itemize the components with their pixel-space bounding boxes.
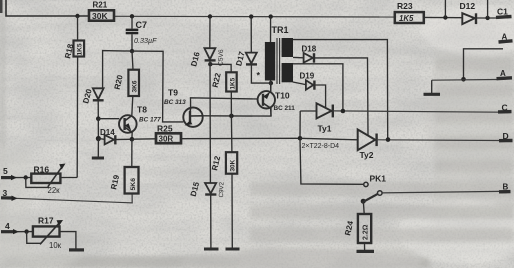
- svg-text:PK1: PK1: [370, 174, 387, 184]
- diode D20: [81, 87, 103, 118]
- main mid rail (D14 - R25 - Ty2): [98, 138, 104, 141]
- ground stub left: [97, 139, 99, 158]
- resistor R21: [89, 1, 114, 22]
- svg-text:1K5: 1K5: [77, 43, 84, 55]
- wire T9 base / T10 emitter: [203, 108, 271, 116]
- svg-text:R25: R25: [157, 124, 173, 134]
- wire R23 to D12: [424, 16, 463, 18]
- node A junction: [461, 77, 466, 82]
- wire secondary2 bottom to D19: [293, 82, 306, 85]
- svg-text:C7: C7: [136, 20, 148, 30]
- svg-text:*: *: [257, 71, 261, 81]
- wire C7 node to T9 emitter: [132, 51, 183, 122]
- resistor R19: [109, 139, 138, 193]
- resistor R12: [210, 116, 239, 249]
- svg-text:T8: T8: [137, 105, 147, 115]
- svg-text:D14: D14: [100, 128, 115, 137]
- capacitor C7: [126, 16, 157, 51]
- svg-text:30K: 30K: [92, 11, 108, 21]
- diode D14: [100, 128, 132, 144]
- wire T8 base: [98, 118, 119, 120]
- node D16 cathode: [208, 62, 212, 66]
- terminal A2: [497, 76, 513, 80]
- pin 4: [1, 221, 33, 234]
- node / stub up 1: [443, 15, 447, 19]
- node D line: [386, 137, 391, 142]
- transformer TR1: [257, 17, 294, 92]
- ground A: [431, 80, 433, 94]
- resistor R22: [211, 72, 237, 116]
- resistor R23: [395, 1, 424, 23]
- node D17 top: [249, 14, 253, 18]
- transistor T9: [164, 88, 203, 127]
- wire C7-node to D20: [103, 51, 132, 89]
- node R19/T8: [130, 137, 135, 142]
- diode D19: [300, 72, 326, 109]
- svg-text:A: A: [502, 33, 508, 42]
- node / stub up 2: [485, 16, 489, 20]
- resistor R18: [63, 16, 84, 178]
- svg-text:C1: C1: [497, 7, 508, 17]
- svg-text:Ty2: Ty2: [360, 150, 374, 160]
- terminal C1: [496, 15, 512, 19]
- svg-text:C9V2: C9V2: [218, 181, 226, 197]
- svg-text:R21: R21: [93, 1, 108, 10]
- thyristor Ty2: [358, 130, 377, 161]
- svg-text:1K5: 1K5: [230, 77, 237, 89]
- svg-text:BC 177: BC 177: [139, 117, 161, 124]
- node R22 tap: [229, 114, 234, 119]
- node R18 top: [75, 14, 79, 18]
- scan edge artifact: [0, 0, 3, 13]
- svg-text:1K5: 1K5: [399, 14, 414, 23]
- svg-text:B: B: [503, 183, 509, 192]
- svg-text:3: 3: [3, 188, 8, 198]
- svg-text:30K: 30K: [230, 159, 237, 171]
- node Ty2 anode / PK1: [298, 136, 303, 141]
- svg-text:5: 5: [3, 166, 8, 176]
- wire top rail: [114, 15, 395, 18]
- pin 5: [1, 166, 31, 180]
- svg-text:R16: R16: [34, 165, 50, 175]
- wire to Ty2: [300, 138, 358, 140]
- wire top-left entry: [6, 0, 89, 16]
- wire secondary2 top tap: [293, 64, 343, 111]
- resistor R24: [343, 202, 374, 251]
- terminal B: [499, 190, 511, 194]
- zener D16: [189, 17, 225, 184]
- terminal D: [499, 139, 513, 143]
- svg-text:T10: T10: [275, 91, 290, 101]
- svg-text:30R: 30R: [159, 135, 174, 144]
- svg-text:TR1: TR1: [272, 25, 289, 35]
- diode D18: [302, 45, 369, 137]
- node D14 anode / ground: [96, 136, 101, 141]
- svg-text:D12: D12: [460, 1, 476, 11]
- ground: [92, 157, 104, 160]
- svg-text:2.2Ω: 2.2Ω: [362, 224, 369, 240]
- potentiometer R16: [26, 164, 77, 195]
- svg-text:0.33µF: 0.33µF: [134, 36, 157, 45]
- wire to R25: [132, 138, 156, 140]
- switch PK1: [361, 174, 387, 204]
- diode D17: [234, 17, 271, 84]
- terminal C: [498, 110, 512, 114]
- svg-text:22к: 22к: [48, 186, 61, 195]
- svg-text:BC 313: BC 313: [164, 99, 186, 106]
- svg-text:C: C: [502, 103, 508, 113]
- svg-text:R23: R23: [397, 1, 413, 11]
- svg-text:10к: 10к: [49, 241, 62, 250]
- transistor T8: [119, 105, 161, 133]
- wire T9 collector to T10 base: [191, 98, 258, 108]
- wire D16 cathode to R22: [210, 64, 231, 72]
- node D17/T10 collector: [269, 81, 273, 85]
- svg-text:D19: D19: [300, 72, 315, 81]
- wire T10 collector: [270, 83, 272, 91]
- zener D15: [189, 180, 226, 249]
- wire secondary1 bottom to D18: [293, 56, 304, 58]
- wire R25 to Ty2 node: [181, 137, 300, 139]
- svg-text:T9: T9: [168, 88, 178, 98]
- svg-text:4: 4: [5, 221, 10, 231]
- wire Ty2 cathode / D line: [377, 139, 500, 142]
- resistor R20: [113, 51, 139, 96]
- svg-text:5K6: 5K6: [130, 178, 137, 191]
- node secondary2 tap on C line: [341, 109, 346, 114]
- node D16 top: [208, 14, 212, 18]
- transistor T10: [258, 91, 296, 113]
- svg-text:C5V6: C5V6: [218, 49, 226, 66]
- wire T8 emitter down: [131, 132, 133, 140]
- thyristor Ty1: [300, 103, 333, 133]
- svg-text:Ty1: Ty1: [318, 124, 332, 134]
- svg-text:D: D: [503, 131, 509, 141]
- wire A1: [464, 49, 504, 80]
- wire PK1 branch: [300, 138, 364, 184]
- node TR1 top: [269, 14, 273, 18]
- wire secondary1 top tap: [293, 40, 388, 140]
- diode D12: [460, 1, 477, 24]
- svg-text:2×T22-8-D4: 2×T22-8-D4: [302, 143, 340, 150]
- node T8 base: [96, 116, 101, 121]
- pin 3: [1, 188, 132, 203]
- potentiometer R17: [27, 216, 84, 250]
- resistor R25: [156, 124, 181, 144]
- svg-text:3K6: 3K6: [132, 80, 139, 92]
- wire D12 to C1: [476, 17, 497, 19]
- node C7 bottom junction: [130, 49, 134, 53]
- node C7 top: [130, 14, 134, 18]
- wire T10 emitter elbow: [270, 108, 272, 116]
- svg-text:A: A: [500, 69, 506, 78]
- svg-text:R17: R17: [38, 216, 54, 226]
- svg-text:D18: D18: [302, 45, 317, 54]
- wire T8 collector up to R20: [132, 96, 133, 116]
- wire Ty1 anode down: [299, 111, 301, 138]
- terminal A1: [499, 41, 513, 42]
- wire B line: [382, 191, 499, 193]
- wire A2: [432, 79, 497, 82]
- wire C line: [333, 111, 500, 112]
- wire D20 to D14 node: [97, 119, 99, 139]
- svg-text:BC 211: BC 211: [274, 105, 296, 112]
